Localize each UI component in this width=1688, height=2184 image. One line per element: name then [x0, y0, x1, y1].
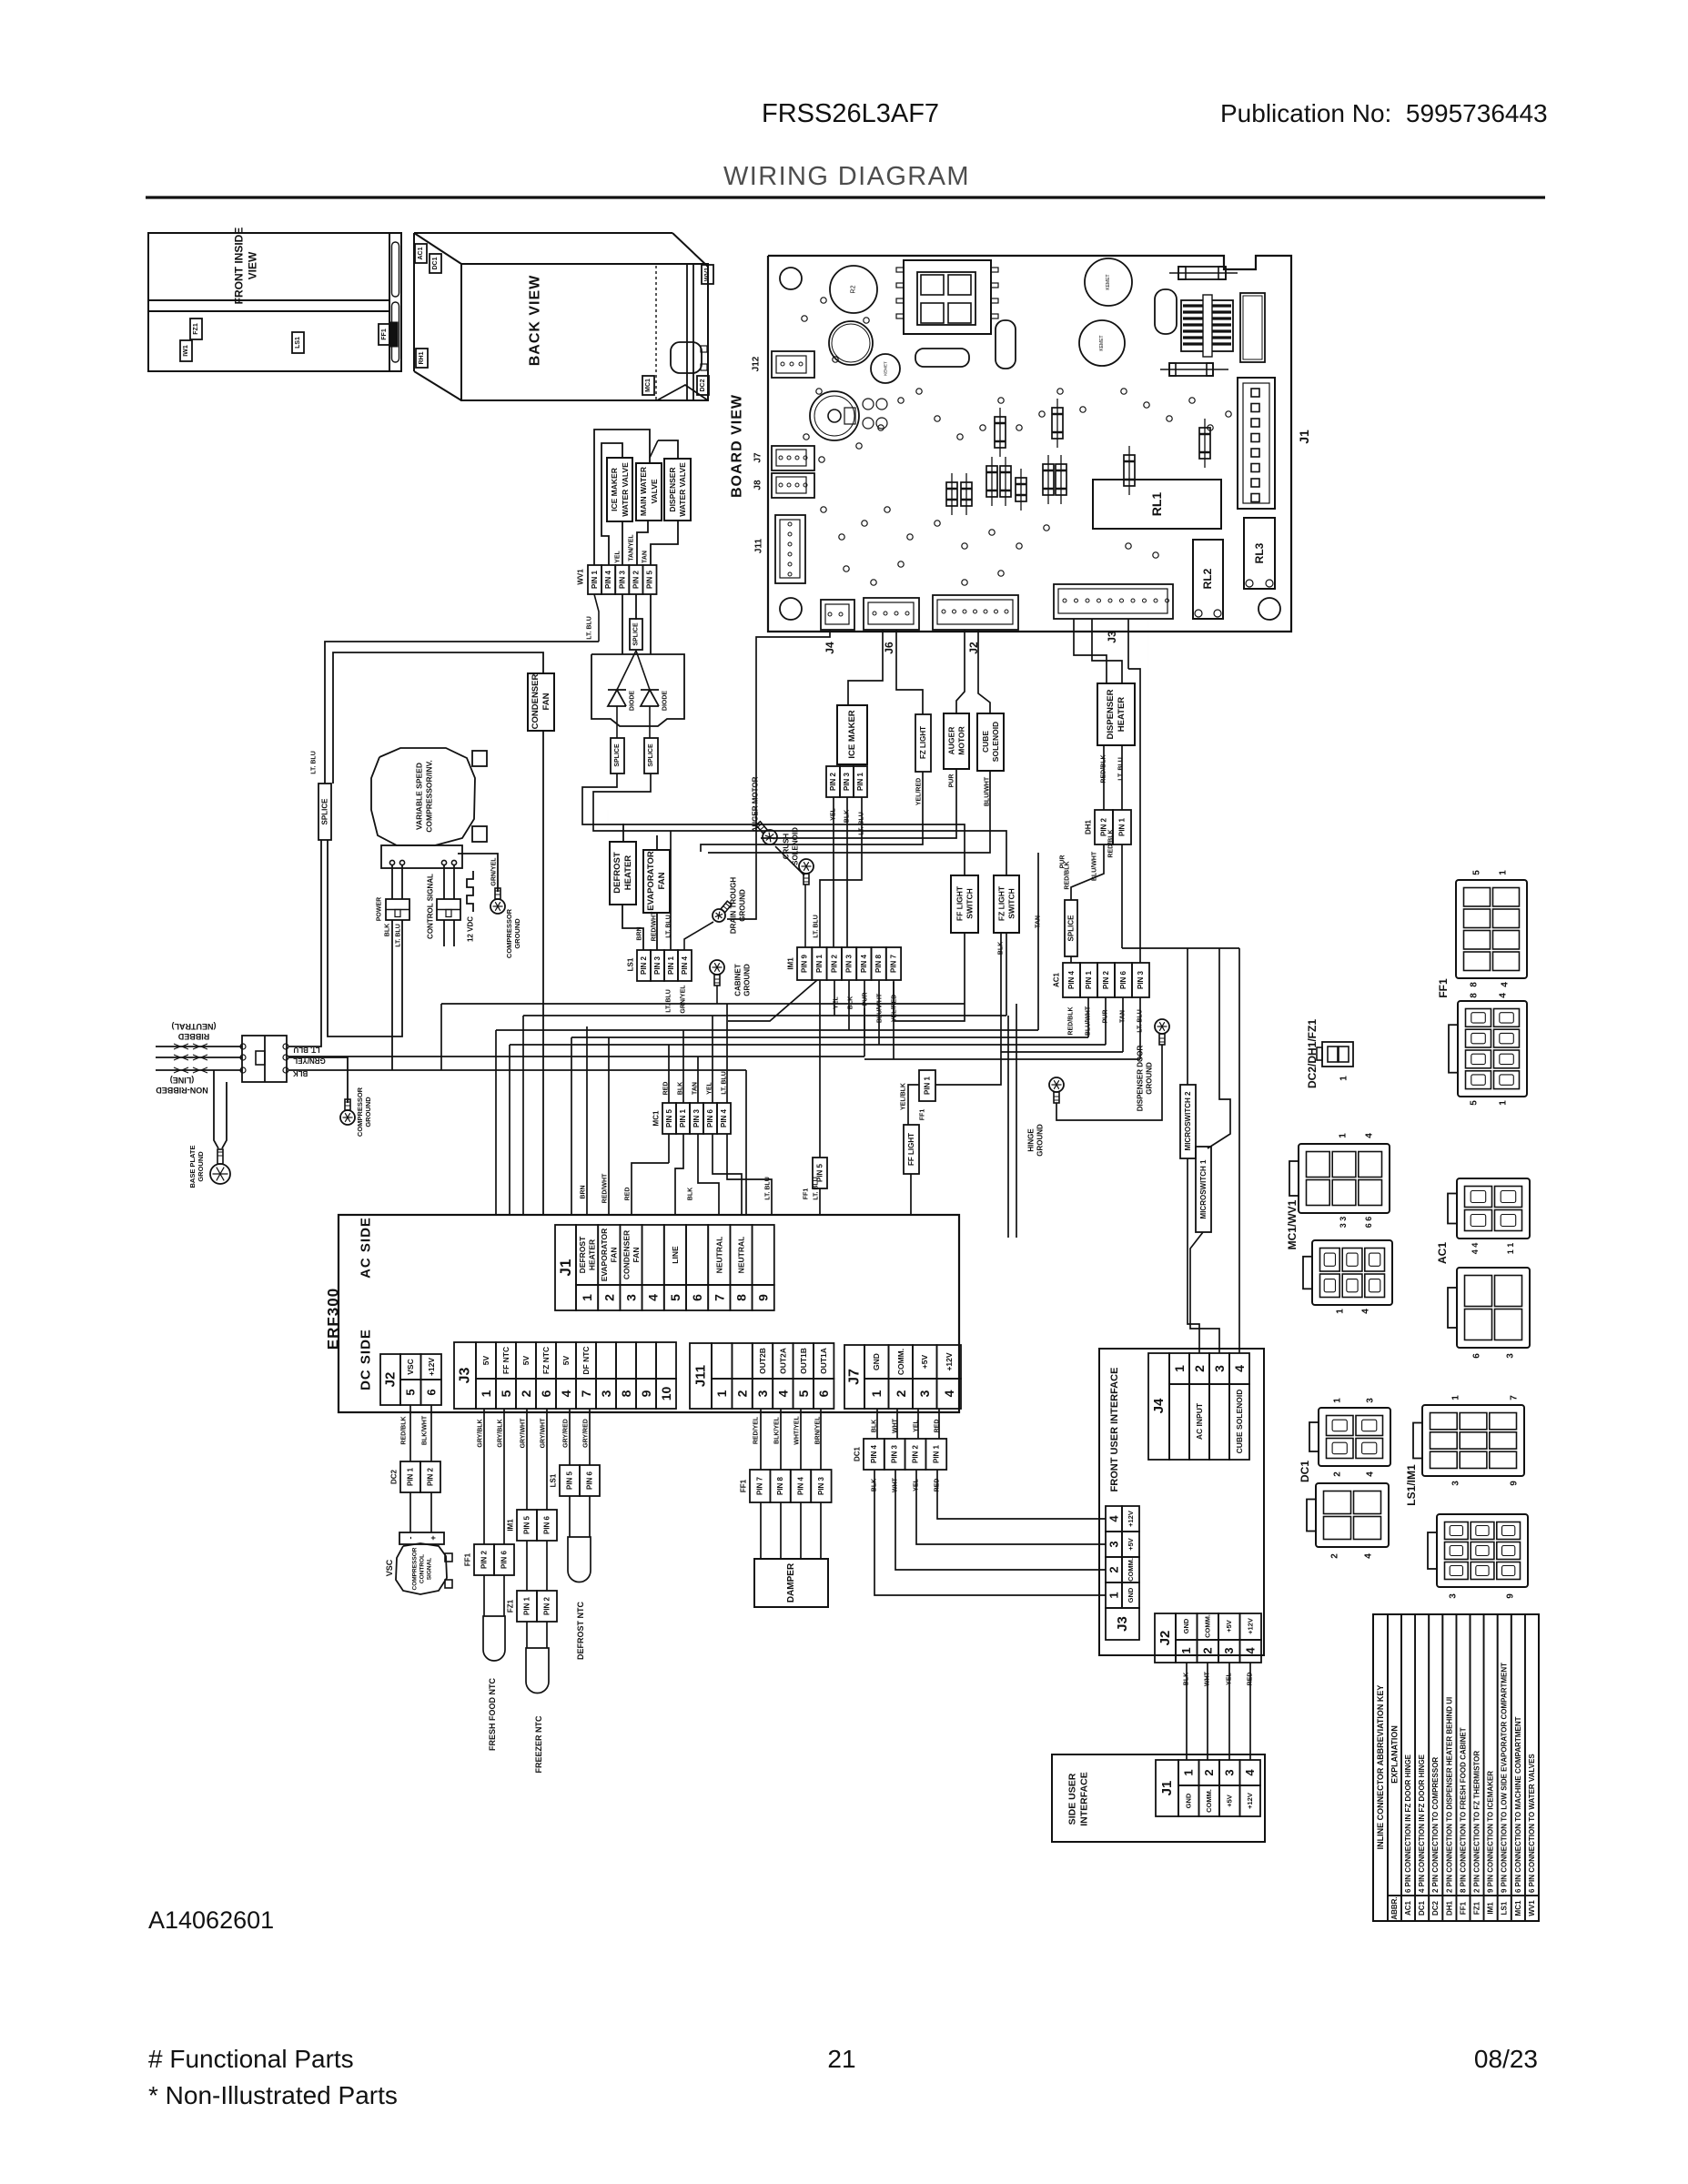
svg-text:4: 4 — [942, 1390, 956, 1397]
svg-text:21: 21 — [827, 2045, 855, 2073]
svg-text:+5V: +5V — [1127, 1538, 1135, 1551]
svg-text:FZ1: FZ1 — [1473, 1901, 1481, 1915]
svg-text:BLU/WHT: BLU/WHT — [1092, 851, 1098, 881]
cube solenoid box — [977, 713, 1004, 771]
vsc compressor blob — [385, 1543, 452, 1594]
svg-text:DC1: DC1 — [854, 1446, 862, 1461]
label LT. BLU at block — [293, 1046, 319, 1054]
svg-text:ERF300: ERF300 — [325, 1288, 342, 1350]
label WV1 back — [702, 265, 713, 284]
svg-text:5: 5 — [1472, 870, 1482, 875]
board transformer — [896, 260, 998, 334]
label J2 board — [967, 642, 980, 654]
svg-text:1: 1 — [1451, 1395, 1461, 1400]
svg-text:3: 3 — [1222, 1647, 1236, 1653]
svg-text:FAN: FAN — [657, 872, 667, 889]
svg-text:2 PIN CONNECTION TO DISPENSER: 2 PIN CONNECTION TO DISPENSER HEATER BEH… — [1445, 1697, 1453, 1893]
svg-text:FAN: FAN — [541, 693, 551, 710]
wire labels BRN RED/WHT LT.BLU above LS1 — [637, 911, 672, 941]
wire J2 to DC2 — [410, 1405, 431, 1461]
svg-text:BLK: BLK — [688, 1188, 694, 1200]
svg-text:OUT2B: OUT2B — [758, 1348, 767, 1374]
svg-text:PIN 9: PIN 9 — [801, 954, 809, 973]
dispenser door ground lug — [1155, 1019, 1169, 1045]
svg-text:SPLICE: SPLICE — [614, 743, 621, 767]
wire microswitch chain B — [1190, 987, 1230, 1353]
wire labels below J2 front ui — [1184, 1671, 1254, 1686]
svg-text:PIN 4: PIN 4 — [720, 1108, 728, 1127]
label non-ribbed line — [156, 1076, 208, 1095]
board connector J8 — [772, 473, 814, 498]
inline connector MC1/WV1 view A — [1289, 1144, 1390, 1213]
compressor ground lug right — [490, 888, 505, 914]
svg-text:PIN 5: PIN 5 — [523, 1515, 531, 1534]
svg-text:6: 6 — [816, 1390, 831, 1397]
svg-text:KEMET: KEMET — [1099, 335, 1105, 350]
svg-text:GRN/YEL: GRN/YEL — [491, 857, 498, 886]
table J2 DC side — [380, 1354, 441, 1405]
svg-text:PIN 6: PIN 6 — [500, 1550, 509, 1569]
svg-text:GROUND: GROUND — [1036, 1124, 1045, 1157]
svg-text:J7: J7 — [847, 1369, 863, 1385]
diode block — [591, 654, 684, 726]
svg-text:LT. BLU: LT. BLU — [396, 924, 402, 947]
board resistor top right — [1169, 267, 1238, 279]
svg-text:RIBBED: RIBBED — [177, 1032, 209, 1041]
svg-text:PIN 5: PIN 5 — [566, 1471, 574, 1490]
wire labels J11 outputs — [753, 1416, 822, 1445]
svg-text:HINGE: HINGE — [1027, 1128, 1036, 1152]
front user interface box — [1099, 1349, 1264, 1655]
svg-text:LS1: LS1 — [1501, 1901, 1509, 1915]
diode D2 — [641, 690, 669, 738]
svg-text:3: 3 — [1449, 1593, 1459, 1599]
svg-text:SIGNAL: SIGNAL — [427, 1558, 433, 1581]
svg-text:MAIN WATER: MAIN WATER — [639, 467, 648, 516]
svg-text:LT. BLU: LT. BLU — [722, 1071, 728, 1095]
wire label LT. BLU left splice — [311, 751, 318, 774]
svg-text:3: 3 — [1506, 1353, 1516, 1359]
svg-text:DISPENSER: DISPENSER — [1106, 689, 1116, 739]
label FF1 inline — [1437, 978, 1450, 998]
footer date — [1474, 2045, 1538, 2073]
label RH1 — [416, 349, 428, 368]
svg-text:PIN 1: PIN 1 — [815, 954, 824, 973]
svg-text:AC1: AC1 — [418, 247, 424, 259]
svg-text:4: 4 — [1361, 1309, 1371, 1314]
board kemet cap 1 — [1085, 258, 1132, 306]
svg-text:GRY/RED: GRY/RED — [583, 1419, 590, 1448]
svg-text:YEL: YEL — [615, 550, 622, 562]
svg-text:WIRING DIAGRAM: WIRING DIAGRAM — [723, 162, 970, 191]
wire IM1 pin drops to bus — [728, 980, 965, 1059]
wire lt blu bus top — [325, 594, 599, 784]
svg-text:BLU/WHT: BLU/WHT — [877, 993, 884, 1023]
fz light — [915, 714, 931, 772]
svg-text:RED/BLK: RED/BLK — [401, 1416, 408, 1444]
inline connector LS1/IM1 view A — [1413, 1405, 1524, 1476]
svg-text:YEL/RED: YEL/RED — [892, 995, 898, 1022]
svg-text:PIN 1: PIN 1 — [591, 570, 599, 589]
svg-text:FF NTC: FF NTC — [501, 1347, 510, 1374]
wire MC1 pins down to ERF300 — [632, 1134, 772, 1215]
table J4 — [1148, 1353, 1249, 1460]
svg-text:PIN 1: PIN 1 — [523, 1596, 531, 1615]
svg-text:AC1: AC1 — [1436, 1242, 1449, 1264]
svg-text:3: 3 — [1212, 1365, 1227, 1372]
label IW1 — [180, 340, 192, 361]
board resistors vertical — [946, 399, 1210, 515]
microswitch 1 — [1196, 1147, 1211, 1232]
inline connector MC1/WV1 A labels — [1339, 1133, 1375, 1138]
svg-text:PIN 7: PIN 7 — [756, 1476, 764, 1495]
wire wv1 pin1 loop to main valve — [594, 430, 678, 565]
label J8 board — [753, 480, 763, 490]
svg-text:GRY/RED: GRY/RED — [563, 1419, 570, 1448]
condenser fan — [528, 673, 554, 731]
svg-text:COMPRESSOR: COMPRESSOR — [505, 908, 513, 958]
board rounded component below transformer — [915, 349, 969, 367]
main water valve — [636, 463, 662, 521]
ff1 pin5 jumper — [804, 980, 828, 1215]
svg-text:IM1: IM1 — [787, 957, 795, 970]
svg-text:8: 8 — [619, 1390, 633, 1397]
header publication number — [1220, 99, 1548, 127]
svg-text:AUGER: AUGER — [947, 727, 956, 755]
svg-text:J3: J3 — [458, 1368, 473, 1384]
svg-text:FRONT INSIDE: FRONT INSIDE — [233, 227, 246, 305]
svg-text:WV1: WV1 — [704, 268, 711, 281]
wire FF1 pins to damper — [761, 1502, 821, 1559]
svg-text:+12V: +12V — [427, 1358, 436, 1376]
ice maker — [837, 705, 867, 764]
svg-text:GRY/BLK: GRY/BLK — [498, 1419, 504, 1447]
svg-text:SPLICE: SPLICE — [1067, 915, 1076, 942]
svg-text:PIN 2: PIN 2 — [1100, 817, 1108, 836]
svg-text:PIN 1: PIN 1 — [856, 772, 864, 791]
board relay RL1 — [1093, 480, 1221, 529]
svg-text:PIN 2: PIN 2 — [1102, 970, 1110, 989]
hinge ground lug — [1049, 1077, 1064, 1103]
svg-text:BOARD VIEW: BOARD VIEW — [730, 394, 745, 498]
wire condenser fan down to J1 — [542, 731, 544, 1215]
wire MC1 pins up to bus — [669, 1004, 727, 1103]
wire compressor to control connector — [444, 865, 454, 899]
svg-text:1 1: 1 1 — [1506, 1243, 1515, 1255]
board connector J7 — [772, 446, 814, 470]
svg-text:7: 7 — [1510, 1395, 1520, 1400]
label J11 board — [754, 538, 764, 553]
table J2 front ui — [1155, 1613, 1261, 1663]
wire wv1 pin4 loop to ice maker valve — [601, 443, 622, 565]
wire wv1 pin2 tan/yel to main valve — [637, 521, 648, 565]
svg-text:5: 5 — [404, 1389, 418, 1395]
svg-text:DC SIDE: DC SIDE — [359, 1329, 374, 1390]
svg-text:IW1: IW1 — [183, 345, 189, 357]
wire left feed to ff light switch — [582, 773, 965, 875]
board kemet cap small — [871, 354, 900, 383]
auger motor box — [944, 713, 969, 769]
svg-text:FAN: FAN — [610, 1248, 619, 1263]
svg-text:PIN 3: PIN 3 — [618, 570, 626, 589]
svg-text:1: 1 — [1339, 1076, 1349, 1081]
splice S2 under diode D1 — [611, 738, 624, 773]
svg-text:DC1: DC1 — [1299, 1461, 1311, 1482]
svg-text:PIN 4: PIN 4 — [870, 1444, 878, 1463]
wire J3 to FF1 sensor pins — [484, 1409, 504, 1544]
svg-text:PIN 2: PIN 2 — [427, 1467, 435, 1486]
evaporator fan — [643, 850, 670, 913]
svg-text:DC2: DC2 — [1431, 1900, 1440, 1916]
svg-text:PIN 2: PIN 2 — [830, 954, 838, 973]
svg-text:PIN 4: PIN 4 — [604, 570, 612, 589]
wire evap fan to LS1 pin3 — [656, 913, 658, 950]
control signal connector — [427, 874, 461, 939]
svg-text:PIN 4: PIN 4 — [797, 1476, 805, 1495]
svg-text:RL2: RL2 — [1201, 568, 1214, 589]
wire labels LT.BLU GRN/YEL below LS1 — [666, 985, 687, 1014]
svg-text:OUT1B: OUT1B — [799, 1348, 808, 1374]
svg-text:PIN 1: PIN 1 — [924, 1076, 932, 1095]
svg-text:DIODE: DIODE — [662, 691, 669, 712]
inline connector AC1 A labels — [1471, 1243, 1515, 1255]
svg-text:COMM.: COMM. — [1205, 1789, 1213, 1813]
svg-text:4: 4 — [1364, 1553, 1374, 1559]
svg-text:CABINET: CABINET — [734, 964, 743, 996]
wire IM1 to FZ1 pins — [527, 1541, 547, 1591]
splice S5 right of WV1 — [630, 619, 642, 650]
svg-text:# Functional Parts: # Functional Parts — [148, 2045, 354, 2073]
svg-text:IM1: IM1 — [1487, 1902, 1495, 1915]
svg-text:SPLICE: SPLICE — [321, 798, 329, 825]
label J6 board — [883, 642, 895, 654]
crush solenoid lug — [799, 859, 814, 885]
wire label BLK under fz switch — [998, 942, 1005, 955]
inline connector FF1 view A — [1456, 880, 1527, 978]
svg-text:AC1: AC1 — [1404, 1900, 1412, 1916]
connector AC1 pin strip — [1053, 963, 1150, 997]
svg-text:CRUSH: CRUSH — [783, 834, 791, 860]
svg-text:WATER VALVE: WATER VALVE — [621, 462, 630, 517]
splice S1 left — [318, 784, 331, 840]
wire bus lines center — [288, 1004, 1140, 1215]
wire control signal stubs — [444, 920, 454, 946]
label MC1/WV1 inline — [1286, 1199, 1299, 1249]
svg-text:PIN 1: PIN 1 — [679, 1108, 687, 1127]
svg-text:ICE MAKER: ICE MAKER — [610, 468, 619, 511]
svg-text:DEFROST: DEFROST — [612, 852, 622, 894]
svg-text:SWITCH: SWITCH — [965, 888, 975, 919]
wire labels GRY/WHT pair — [521, 1418, 547, 1449]
wire defrost heater to LS1 pin2 — [622, 905, 643, 950]
inline connector symbols on entry — [174, 1044, 207, 1073]
legend table inline connector abbreviation key — [1373, 1614, 1539, 1921]
svg-text:9: 9 — [639, 1390, 653, 1397]
svg-text:DC2: DC2 — [390, 1469, 399, 1484]
damper box — [754, 1559, 828, 1607]
svg-text:SIDE USER: SIDE USER — [1067, 1773, 1078, 1825]
svg-text:DRAIN TROUGH: DRAIN TROUGH — [730, 877, 738, 934]
svg-text:4: 4 — [1501, 982, 1511, 987]
svg-text:BLK/WHT: BLK/WHT — [422, 1415, 429, 1445]
svg-text:1: 1 — [1172, 1365, 1187, 1372]
wire labels above MC1 — [663, 1071, 728, 1095]
svg-text:9 PIN CONNECTION TO LOW SIDE E: 9 PIN CONNECTION TO LOW SIDE EVAPORATOR … — [1501, 1663, 1509, 1893]
svg-text:6: 6 — [424, 1389, 438, 1395]
svg-text:A14062601: A14062601 — [148, 1906, 274, 1934]
svg-text:RED/YEL: RED/YEL — [753, 1416, 760, 1444]
wire labels below J2 — [401, 1415, 429, 1445]
svg-text:5: 5 — [1470, 1100, 1480, 1106]
label DC2 back — [697, 376, 709, 395]
svg-text:FZ1: FZ1 — [507, 1599, 515, 1613]
svg-text:WATER VALVE: WATER VALVE — [678, 462, 687, 517]
label front user interface — [1109, 1368, 1120, 1492]
wire J7 to DC1 pins — [877, 1409, 939, 1439]
svg-text:9: 9 — [1506, 1593, 1516, 1599]
svg-text:1: 1 — [1182, 1769, 1196, 1775]
defrost ntc probe — [568, 1496, 591, 1660]
connector LS1 sensor pins — [550, 1465, 601, 1496]
board connector J11 — [775, 515, 805, 583]
label BLK at block — [293, 1069, 308, 1077]
svg-text:DH1: DH1 — [1085, 819, 1093, 834]
wire DH1 pin2 to splice — [1071, 844, 1104, 900]
wire labels J7 to DC1 — [872, 1418, 941, 1433]
wire J3 down to DH1 area — [1074, 619, 1148, 963]
table J1 AC side — [555, 1225, 774, 1310]
svg-text:PIN 2: PIN 2 — [480, 1550, 489, 1569]
compressor terminal box — [381, 845, 462, 868]
svg-text:J1: J1 — [1159, 1781, 1175, 1796]
svg-text:COMPRESSOR: COMPRESSOR — [412, 1547, 419, 1590]
wire tan riser — [1037, 853, 1039, 1030]
svg-text:7: 7 — [712, 1294, 726, 1301]
wire cabinet ground to bus — [716, 986, 718, 1004]
svg-text:WV1: WV1 — [1528, 1900, 1536, 1916]
inline connector FF1 view B labels — [1470, 993, 1509, 1106]
svg-text:RED/BLK: RED/BLK — [1068, 1006, 1075, 1035]
svg-text:2: 2 — [1202, 1769, 1216, 1775]
svg-text:MC1: MC1 — [645, 379, 652, 392]
svg-text:FAN: FAN — [632, 1248, 641, 1263]
svg-text:FRONT USER INTERFACE: FRONT USER INTERFACE — [1109, 1368, 1120, 1492]
svg-text:EVAPORATOR: EVAPORATOR — [600, 1228, 609, 1282]
wire switch drops — [935, 933, 1006, 1085]
svg-text:CUBE: CUBE — [981, 731, 990, 753]
footer page number — [827, 2045, 855, 2073]
board vertical stadium — [996, 320, 1016, 369]
svg-text:LT. BLU: LT. BLU — [587, 616, 593, 640]
svg-text:PIN 5: PIN 5 — [816, 1163, 824, 1182]
svg-text:CONDENSER: CONDENSER — [622, 1230, 631, 1279]
svg-text:FF1: FF1 — [1437, 978, 1450, 998]
wire wv1 pin2 down to splice — [635, 594, 637, 620]
svg-text:GRY/WHT: GRY/WHT — [521, 1418, 527, 1449]
label J3 board — [1106, 631, 1118, 643]
footer functional parts — [148, 2045, 398, 2109]
svg-text:RED: RED — [625, 1188, 632, 1201]
svg-text:FF1: FF1 — [464, 1552, 472, 1566]
board connector J3b — [1054, 584, 1173, 619]
svg-text:+12V: +12V — [1127, 1511, 1135, 1527]
svg-text:CONTROL: CONTROL — [419, 1554, 426, 1583]
svg-text:+5V: +5V — [1225, 1620, 1233, 1633]
label FZ1 — [190, 318, 202, 339]
svg-text:RH1: RH1 — [419, 351, 425, 364]
splice S3 under diode D2 — [644, 738, 658, 773]
inline connector DC1 view A — [1309, 1408, 1390, 1466]
svg-text:4: 4 — [646, 1294, 661, 1301]
svg-text:6 PIN CONNECTION IN FZ DOOR HI: 6 PIN CONNECTION IN FZ DOOR HINGE — [1404, 1754, 1412, 1893]
svg-text:DIODE: DIODE — [630, 691, 636, 712]
wire left feed to fz light switch — [593, 773, 1006, 875]
board connector J4b — [821, 600, 854, 630]
svg-text:2: 2 — [1107, 1566, 1121, 1572]
wire auger to crush — [775, 846, 804, 875]
fresh food ntc probe — [483, 1575, 505, 1751]
svg-text:INTERFACE: INTERFACE — [1079, 1772, 1090, 1826]
svg-text:PIN 1: PIN 1 — [1118, 817, 1127, 836]
svg-text:+5V: +5V — [1226, 1795, 1234, 1807]
ff light box — [904, 1125, 919, 1174]
wire bundle verticals left — [441, 1004, 571, 1215]
svg-text:MC1/WV1: MC1/WV1 — [1286, 1199, 1299, 1249]
base plate ground lug — [210, 1149, 230, 1184]
ac line entry wires — [156, 1046, 242, 1070]
inline connector DC1 A labels — [1333, 1398, 1376, 1477]
board connector J6 — [864, 598, 919, 630]
svg-text:1: 1 — [580, 1294, 594, 1301]
svg-text:4: 4 — [775, 1390, 790, 1397]
board resistor mid right — [1160, 363, 1228, 376]
wire labels GRY/BLK pair — [478, 1419, 504, 1447]
svg-text:J1: J1 — [1297, 430, 1311, 444]
svg-text:2: 2 — [1333, 1471, 1343, 1477]
svg-text:PIN 3: PIN 3 — [817, 1476, 825, 1495]
svg-text:RL3: RL3 — [1253, 542, 1266, 563]
label DC1 back — [430, 254, 441, 273]
table J11 DC side — [690, 1343, 834, 1409]
board relay RL2 — [1193, 540, 1223, 619]
svg-text:BRN: BRN — [581, 1185, 587, 1198]
wire labels YEL/RED PUR BLU/WHT — [916, 774, 991, 807]
svg-text:PIN 1: PIN 1 — [407, 1467, 415, 1486]
svg-text:LT. BLU: LT. BLU — [293, 1046, 319, 1054]
board connector J12 — [772, 351, 814, 378]
label ERF300 — [325, 1288, 342, 1350]
svg-text:LS1/IM1: LS1/IM1 — [1405, 1464, 1418, 1506]
svg-text:4 PIN CONNECTION IN FZ DOOR HI: 4 PIN CONNECTION IN FZ DOOR HINGE — [1418, 1754, 1426, 1893]
svg-text:GROUND: GROUND — [364, 1097, 372, 1127]
svg-text:PIN 3: PIN 3 — [1137, 970, 1145, 989]
svg-text:OUT1A: OUT1A — [819, 1348, 828, 1374]
svg-text:* Non-Illustrated Parts: * Non-Illustrated Parts — [148, 2081, 398, 2109]
label drain trough ground — [730, 877, 747, 934]
svg-text:KEMET: KEMET — [1106, 274, 1111, 289]
svg-text:3: 3 — [1223, 1769, 1237, 1775]
label LS1/IM1 inline — [1405, 1464, 1418, 1506]
svg-text:PIN 6: PIN 6 — [586, 1471, 594, 1490]
wire power ltblu down — [328, 840, 402, 1036]
svg-text:GROUND: GROUND — [739, 889, 747, 922]
svg-text:TAN/YEL: TAN/YEL — [629, 534, 635, 561]
svg-text:9: 9 — [756, 1294, 771, 1301]
svg-text:HEATER: HEATER — [1117, 697, 1127, 732]
board oval — [1155, 289, 1177, 334]
wire label LT. BLU above IM1 — [814, 915, 820, 938]
svg-text:J6: J6 — [883, 642, 895, 654]
